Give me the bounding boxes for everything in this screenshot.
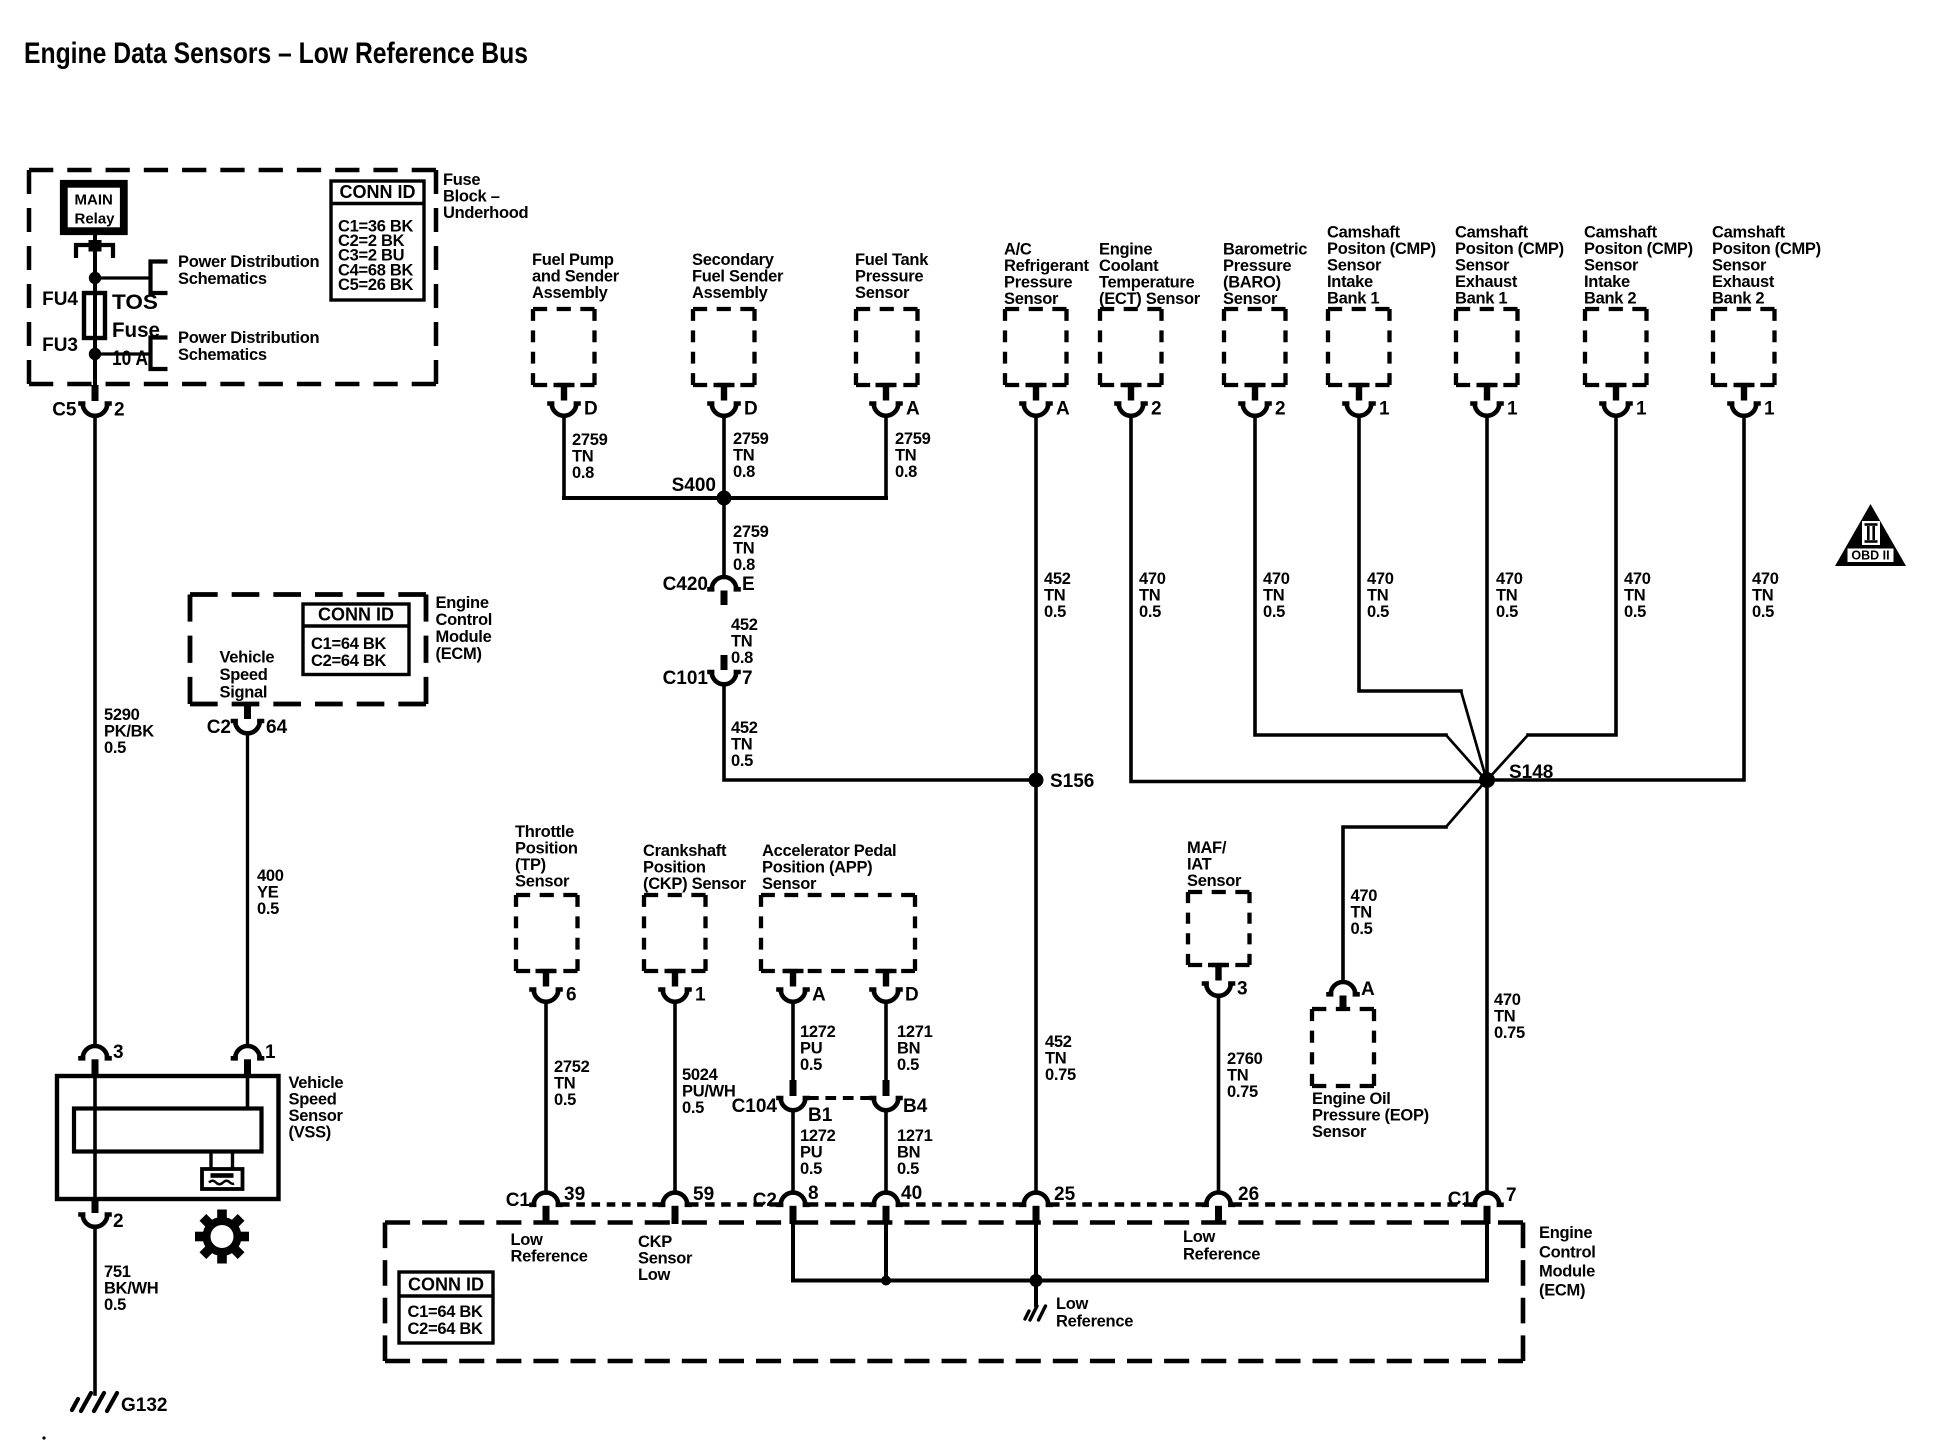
svg-text:Position (APP): Position (APP) [762, 859, 872, 877]
svg-text:TN: TN [731, 736, 752, 754]
svg-text:2: 2 [1275, 399, 1286, 420]
svg-text:Control: Control [436, 611, 493, 629]
svg-text:Intake: Intake [1327, 273, 1373, 291]
svg-text:7: 7 [742, 668, 753, 689]
svg-text:Low: Low [511, 1231, 544, 1249]
svg-text:0.75: 0.75 [1227, 1083, 1258, 1101]
svg-text:E: E [742, 574, 755, 595]
svg-text:D: D [905, 985, 919, 1006]
svg-text:CONN ID: CONN ID [318, 605, 394, 625]
svg-text:B4: B4 [903, 1096, 928, 1117]
svg-text:Camshaft: Camshaft [1455, 224, 1529, 242]
svg-text:Fuel Pump: Fuel Pump [532, 251, 614, 269]
svg-text:2752: 2752 [554, 1058, 590, 1076]
svg-text:A: A [1361, 979, 1375, 1000]
svg-text:0.5: 0.5 [897, 1056, 919, 1074]
svg-text:TN: TN [1045, 1050, 1066, 1068]
svg-text:C420: C420 [663, 574, 708, 595]
svg-text:2759: 2759 [733, 523, 769, 541]
svg-text:2: 2 [1151, 399, 1162, 420]
svg-text:Engine: Engine [1099, 241, 1152, 259]
wire A/C sensor 452 TN 0.5 down to S156 [1034, 416, 1038, 781]
svg-text:OBD II: OBD II [1851, 549, 1889, 563]
svg-text:FU3: FU3 [42, 335, 78, 356]
svg-text:1: 1 [1764, 399, 1775, 420]
svg-text:YE: YE [257, 884, 279, 902]
wire VSS internal left [93, 1076, 97, 1199]
splice S400 [717, 491, 732, 506]
svg-text:(VSS): (VSS) [289, 1124, 332, 1142]
svg-text:0.5: 0.5 [1351, 920, 1373, 938]
svg-text:Bank 1: Bank 1 [1327, 290, 1379, 308]
svg-text:PK/BK: PK/BK [104, 723, 154, 741]
wire MAIN relay to fuse [93, 235, 97, 386]
svg-text:Fuse: Fuse [443, 171, 480, 189]
svg-text:0.5: 0.5 [1263, 603, 1285, 621]
sensor Engine Oil Pressure (EOP) Sensor [1329, 982, 1358, 994]
svg-text:Positon (CMP): Positon (CMP) [1712, 240, 1821, 258]
svg-text:0.5: 0.5 [682, 1099, 704, 1117]
svg-text:Reference: Reference [1056, 1313, 1133, 1331]
connector C420 pin E [710, 577, 739, 589]
svg-text:Secondary: Secondary [692, 251, 775, 269]
connector ECM pin C2-8 [779, 1193, 808, 1205]
svg-text:MAF/: MAF/ [1187, 839, 1227, 857]
svg-text:C101: C101 [663, 668, 709, 689]
svg-text:0.8: 0.8 [733, 556, 755, 574]
svg-text:Control: Control [1539, 1243, 1596, 1261]
svg-text:Module: Module [1539, 1263, 1595, 1281]
svg-text:Coolant: Coolant [1099, 257, 1159, 275]
svg-text:452: 452 [1044, 570, 1071, 588]
svg-text:(ECM): (ECM) [436, 645, 482, 663]
svg-text:IAT: IAT [1187, 856, 1212, 874]
svg-text:Pressure (EOP): Pressure (EOP) [1312, 1107, 1429, 1125]
svg-text:Vehicle: Vehicle [220, 649, 275, 667]
svg-text:0.5: 0.5 [1139, 603, 1161, 621]
svg-text:8: 8 [808, 1183, 819, 1204]
svg-text:470: 470 [1139, 570, 1166, 588]
svg-text:0.5: 0.5 [1044, 603, 1066, 621]
svg-text:0.5: 0.5 [897, 1160, 919, 1178]
svg-text:3: 3 [1237, 979, 1248, 1000]
svg-text:Exhaust: Exhaust [1712, 273, 1775, 291]
wire ECT 470 TN 0.5 to S148 [1131, 416, 1487, 782]
svg-text:BK/WH: BK/WH [104, 1280, 158, 1298]
svg-text:(BARO): (BARO) [1223, 274, 1281, 292]
svg-text:TN: TN [1044, 587, 1065, 605]
wire TP 2752 TN 0.5 [544, 1002, 548, 1192]
CONN ID table (fuse block) [331, 181, 424, 300]
Vehicle Speed Sensor (VSS) box [57, 1076, 279, 1199]
svg-text:Bank 2: Bank 2 [1584, 290, 1636, 308]
bracket upper Power Distribution [151, 262, 168, 294]
svg-text:25: 25 [1054, 1184, 1076, 1205]
svg-text:0.5: 0.5 [1752, 603, 1774, 621]
stray mark [42, 1436, 45, 1439]
svg-text:TN: TN [1227, 1067, 1248, 1085]
svg-text:A/C: A/C [1004, 241, 1032, 259]
svg-text:Module: Module [436, 628, 492, 646]
splice S148 [1479, 772, 1495, 788]
svg-text:(TP): (TP) [515, 856, 546, 874]
svg-text:Low: Low [638, 1266, 671, 1284]
svg-text:470: 470 [1496, 570, 1523, 588]
svg-text:C1: C1 [506, 1190, 531, 1211]
junction dot low reference bus [1030, 1274, 1043, 1287]
svg-text:0.5: 0.5 [257, 900, 279, 918]
svg-text:26: 26 [1238, 1184, 1259, 1205]
svg-text:Sensor: Sensor [1223, 290, 1278, 308]
svg-text:Low: Low [1183, 1228, 1216, 1246]
svg-text:Sensor: Sensor [762, 875, 817, 893]
wire fuel pump D 2759 TN 0.8 [562, 416, 566, 499]
wire 751 BK/WH 0.5 [93, 1227, 97, 1394]
svg-text:Power Distribution: Power Distribution [178, 253, 319, 271]
svg-text:59: 59 [693, 1184, 714, 1205]
ECM bottom dashed box [385, 1220, 1523, 1225]
svg-text:Sensor: Sensor [1004, 290, 1059, 308]
svg-text:5290: 5290 [104, 706, 140, 724]
svg-text:Underhood: Underhood [443, 204, 528, 222]
connector ECM pin 26 [1204, 1193, 1233, 1205]
svg-text:Camshaft: Camshaft [1584, 224, 1658, 242]
svg-text:Bank 2: Bank 2 [1712, 290, 1764, 308]
svg-text:Pressure: Pressure [1004, 274, 1072, 292]
wire B4 to ECM pin 40 1271 BN 0.5 [884, 1110, 888, 1192]
svg-text:Vehicle: Vehicle [289, 1074, 344, 1092]
svg-text:0.5: 0.5 [554, 1091, 576, 1109]
svg-text:Crankshaft: Crankshaft [643, 842, 727, 860]
svg-text:470: 470 [1752, 570, 1779, 588]
svg-text:452: 452 [1045, 1033, 1072, 1051]
connector C5 pin 2 [92, 385, 99, 401]
ECM connector dotted line [561, 1202, 661, 1207]
svg-text:0.5: 0.5 [1496, 603, 1518, 621]
svg-text:TN: TN [1351, 904, 1372, 922]
svg-text:1272: 1272 [800, 1023, 836, 1041]
wire splice bus S400 [564, 496, 886, 500]
svg-text:3: 3 [113, 1042, 124, 1063]
fuse block underhood dashed box [29, 168, 436, 173]
svg-text:TN: TN [1496, 587, 1517, 605]
wire APP A 1272 PU 0.5 [791, 1002, 795, 1080]
wire secondary D 2759 TN 0.8 [722, 416, 726, 499]
bracket lower Power Distribution [151, 338, 168, 370]
svg-text:TOS: TOS [112, 291, 158, 314]
wire BARO 470 TN 0.5 to S148 [1255, 416, 1446, 736]
wire S148 to ECM pin C1-7 470 TN 0.75 [1485, 780, 1489, 1192]
svg-text:Throttle: Throttle [515, 823, 574, 841]
ground Low Reference (ECM internal) [1025, 1306, 1046, 1320]
svg-text:C104: C104 [732, 1096, 778, 1117]
wire S400 to C420 2759 TN 0.8 [722, 498, 726, 576]
svg-text:PU: PU [800, 1040, 822, 1058]
junction to Power Distribution (lower) [89, 348, 101, 360]
svg-text:Refrigerant: Refrigerant [1004, 257, 1090, 275]
svg-text:CKP: CKP [638, 1233, 672, 1251]
svg-text:CONN ID: CONN ID [408, 1275, 484, 1295]
svg-text:C5: C5 [52, 400, 77, 421]
svg-text:470: 470 [1624, 570, 1651, 588]
svg-text:TN: TN [895, 447, 916, 465]
svg-text:Sensor: Sensor [1187, 872, 1242, 890]
svg-text:S156: S156 [1050, 771, 1094, 792]
svg-text:C1=64 BK: C1=64 BK [311, 635, 386, 653]
wire S156 to ECM pin 25 452 TN 0.75 [1034, 780, 1038, 1192]
svg-text:1: 1 [695, 985, 706, 1006]
svg-text:C5=26 BK: C5=26 BK [338, 276, 413, 294]
wire MAF 2760 TN 0.75 [1217, 996, 1221, 1192]
VSS inner element [74, 1109, 262, 1152]
relay connector bracket [76, 245, 113, 258]
svg-text:Speed: Speed [289, 1091, 337, 1109]
svg-text:452: 452 [731, 616, 758, 634]
svg-text:C1: C1 [1448, 1189, 1473, 1210]
svg-text:0.5: 0.5 [731, 752, 753, 770]
svg-text:Position: Position [643, 859, 706, 877]
svg-text:0.5: 0.5 [800, 1056, 822, 1074]
svg-text:2: 2 [113, 1211, 124, 1232]
svg-text:TN: TN [1752, 587, 1773, 605]
svg-text:S148: S148 [1509, 762, 1553, 783]
svg-text:10 A: 10 A [112, 347, 148, 370]
svg-text:0.75: 0.75 [1494, 1024, 1525, 1042]
svg-text:Intake: Intake [1584, 273, 1630, 291]
svg-text:B1: B1 [808, 1105, 833, 1126]
svg-text:TN: TN [733, 447, 754, 465]
connector VSS pin 1 [233, 1046, 262, 1058]
svg-text:Power Distribution: Power Distribution [178, 329, 319, 347]
svg-text:S400: S400 [672, 475, 716, 496]
svg-text:Engine: Engine [436, 594, 489, 612]
svg-text:PU/WH: PU/WH [682, 1083, 736, 1101]
svg-text:CONN ID: CONN ID [340, 182, 416, 202]
svg-text:Signal: Signal [220, 684, 268, 702]
connector C104 pin B1 [790, 1080, 797, 1096]
wire pin 25 to ground [1034, 1224, 1038, 1305]
wire 5290 PK/BK 0.5 [93, 416, 97, 1046]
svg-text:2760: 2760 [1227, 1050, 1263, 1068]
svg-text:0.8: 0.8 [731, 649, 753, 667]
relay MAIN Relay [64, 184, 124, 231]
wire CMP intake bank1 470 TN 0.5 to S148 [1359, 416, 1461, 692]
svg-text:D: D [744, 399, 758, 420]
svg-text:Sensor: Sensor [289, 1107, 344, 1125]
VSS pickup element [209, 1152, 212, 1170]
svg-text:0.5: 0.5 [104, 739, 126, 757]
wire CMP exhaust bank1 470 TN 0.5 straight to S148 [1485, 416, 1489, 781]
OBD II symbol [1835, 504, 1906, 566]
svg-text:TN: TN [1494, 1008, 1515, 1026]
svg-text:Speed: Speed [220, 666, 268, 684]
svg-text:Relay: Relay [75, 211, 116, 228]
C104 connector dashed line [808, 1096, 871, 1100]
connector ECM pin 40 [872, 1193, 901, 1205]
svg-text:Fuel Sender: Fuel Sender [692, 268, 784, 286]
svg-text:2759: 2759 [733, 430, 769, 448]
svg-text:400: 400 [257, 867, 284, 885]
svg-text:A: A [1056, 399, 1070, 420]
svg-text:C2=64 BK: C2=64 BK [311, 652, 386, 670]
svg-text:(ECM): (ECM) [1539, 1282, 1585, 1300]
svg-text:1271: 1271 [897, 1127, 933, 1145]
fuse TOS Fuse 10A body [84, 293, 105, 338]
svg-text:1271: 1271 [897, 1023, 933, 1041]
svg-text:(ECT) Sensor: (ECT) Sensor [1099, 290, 1201, 308]
svg-text:C2: C2 [207, 717, 231, 738]
svg-text:Sensor: Sensor [1455, 257, 1510, 275]
svg-text:0.5: 0.5 [1624, 603, 1646, 621]
svg-text:(CKP) Sensor: (CKP) Sensor [643, 875, 747, 893]
svg-text:Exhaust: Exhaust [1455, 273, 1518, 291]
wire pin 40 to bus [884, 1224, 888, 1281]
ground G132 [72, 1393, 117, 1411]
wire CKP 5024 PU/WH 0.5 [673, 1002, 677, 1192]
svg-text:Reference: Reference [511, 1248, 588, 1266]
wire C101 to S156 452 TN 0.5 [724, 684, 1036, 780]
connector VSS pin 3 [81, 1046, 110, 1058]
svg-text:0.75: 0.75 [1045, 1066, 1076, 1084]
svg-text:0.5: 0.5 [104, 1296, 126, 1314]
wire CMP exhaust bank2 470 TN 0.5 to S148 [1487, 416, 1744, 781]
svg-text:Low: Low [1056, 1295, 1089, 1313]
svg-text:0.8: 0.8 [572, 464, 594, 482]
svg-text:470: 470 [1367, 570, 1394, 588]
connector ECM pin 25 [1022, 1193, 1051, 1205]
svg-text:Pressure: Pressure [855, 268, 923, 286]
svg-text:1: 1 [1507, 399, 1518, 420]
svg-text:MAIN: MAIN [75, 192, 113, 209]
connector C104 pin B4 [883, 1080, 890, 1096]
svg-text:Position: Position [515, 840, 578, 858]
svg-text:Sensor: Sensor [515, 873, 570, 891]
svg-text:Sensor: Sensor [1327, 257, 1382, 275]
wire fuel tank A 2759 TN 0.8 [884, 416, 888, 499]
svg-text:6: 6 [566, 985, 577, 1006]
svg-text:1: 1 [1636, 399, 1647, 420]
svg-text:TN: TN [1624, 587, 1645, 605]
svg-text:39: 39 [564, 1184, 585, 1205]
svg-text:Fuel Tank: Fuel Tank [855, 251, 929, 269]
connector C101 pin 7 [721, 655, 728, 670]
svg-text:TN: TN [731, 633, 752, 651]
svg-text:2759: 2759 [895, 430, 931, 448]
svg-text:FU4: FU4 [42, 289, 78, 310]
splice S156 [1029, 773, 1044, 788]
svg-text:G132: G132 [121, 1395, 167, 1416]
connector VSS pin 2 [92, 1199, 99, 1213]
svg-text:C2: C2 [753, 1190, 777, 1211]
svg-text:PU: PU [800, 1144, 822, 1162]
svg-text:A: A [812, 985, 826, 1006]
connector ECM pin C1-39 [532, 1193, 561, 1205]
svg-text:470: 470 [1263, 570, 1290, 588]
svg-text:A: A [906, 399, 920, 420]
svg-text:Sensor: Sensor [1584, 257, 1639, 275]
connector ECM pin C1-7 [1473, 1193, 1502, 1205]
gear icon [195, 1210, 249, 1264]
svg-text:TN: TN [572, 448, 593, 466]
svg-text:Schematics: Schematics [178, 270, 267, 288]
svg-text:Schematics: Schematics [178, 346, 267, 364]
svg-text:5024: 5024 [682, 1066, 719, 1084]
svg-text:Sensor: Sensor [1712, 257, 1767, 275]
svg-text:C1=64 BK: C1=64 BK [408, 1303, 483, 1321]
svg-text:0.5: 0.5 [1367, 603, 1389, 621]
svg-text:BN: BN [897, 1040, 920, 1058]
wire B1 to ECM pin 8 1272 PU 0.5 [791, 1110, 795, 1192]
svg-text:Sensor: Sensor [638, 1250, 693, 1268]
svg-text:D: D [584, 399, 598, 420]
svg-text:1272: 1272 [800, 1127, 836, 1145]
svg-text:Camshaft: Camshaft [1327, 224, 1401, 242]
svg-text:Accelerator Pedal: Accelerator Pedal [762, 842, 896, 860]
CONN ID table (ECM bottom) [399, 1272, 493, 1343]
svg-text:TN: TN [1139, 587, 1160, 605]
svg-text:Barometric: Barometric [1223, 241, 1307, 259]
svg-text:Engine Data Sensors – Low Refe: Engine Data Sensors – Low Reference Bus [24, 37, 528, 70]
svg-text:and Sender: and Sender [532, 268, 620, 286]
connector C2 pin 64 [244, 705, 251, 720]
CONN ID table (ECM top) [303, 604, 409, 675]
svg-text:7: 7 [1506, 1185, 1517, 1206]
svg-text:0.5: 0.5 [800, 1160, 822, 1178]
svg-text:Positon (CMP): Positon (CMP) [1327, 240, 1436, 258]
svg-text:C2=64 BK: C2=64 BK [408, 1320, 483, 1338]
wire VSS internal right [246, 1076, 250, 1109]
wire 400 YE 0.5 [246, 733, 249, 1046]
svg-text:Block –: Block – [443, 188, 500, 206]
svg-text:1: 1 [1379, 399, 1390, 420]
svg-text:2: 2 [114, 400, 125, 421]
svg-text:Camshaft: Camshaft [1712, 224, 1786, 242]
svg-text:TN: TN [1367, 587, 1388, 605]
svg-text:Engine: Engine [1539, 1224, 1592, 1242]
wire S148 branch to EOP 470 TN 0.5 [1446, 783, 1484, 827]
svg-text:470: 470 [1494, 991, 1521, 1009]
svg-text:BN: BN [897, 1144, 920, 1162]
svg-text:Engine Oil: Engine Oil [1312, 1090, 1391, 1108]
svg-text:452: 452 [731, 719, 758, 737]
ECM Vehicle Speed Signal dashed box [190, 592, 426, 597]
svg-text:1: 1 [265, 1042, 276, 1063]
svg-text:Positon (CMP): Positon (CMP) [1455, 240, 1564, 258]
svg-text:Positon (CMP): Positon (CMP) [1584, 240, 1693, 258]
svg-text:0.8: 0.8 [733, 463, 755, 481]
junction to Power Distribution (upper) [89, 272, 101, 284]
svg-text:Sensor: Sensor [1312, 1123, 1367, 1141]
svg-text:Assembly: Assembly [692, 284, 769, 302]
svg-text:40: 40 [901, 1183, 922, 1204]
svg-text:TN: TN [733, 540, 754, 558]
svg-text:Sensor: Sensor [855, 284, 910, 302]
svg-text:Assembly: Assembly [532, 284, 609, 302]
svg-text:Reference: Reference [1183, 1246, 1260, 1264]
svg-text:TN: TN [554, 1075, 575, 1093]
svg-text:Bank 1: Bank 1 [1455, 290, 1507, 308]
svg-text:TN: TN [1263, 587, 1284, 605]
svg-text:64: 64 [266, 717, 288, 738]
svg-text:751: 751 [104, 1263, 131, 1281]
svg-text:470: 470 [1351, 887, 1378, 905]
svg-text:Pressure: Pressure [1223, 257, 1291, 275]
wire APP D 1271 BN 0.5 [884, 1002, 888, 1080]
svg-text:2759: 2759 [572, 431, 608, 449]
wire ECM internal low reference bus [793, 1224, 1487, 1281]
svg-text:0.8: 0.8 [895, 463, 917, 481]
connector ECM pin 59 [661, 1193, 690, 1205]
